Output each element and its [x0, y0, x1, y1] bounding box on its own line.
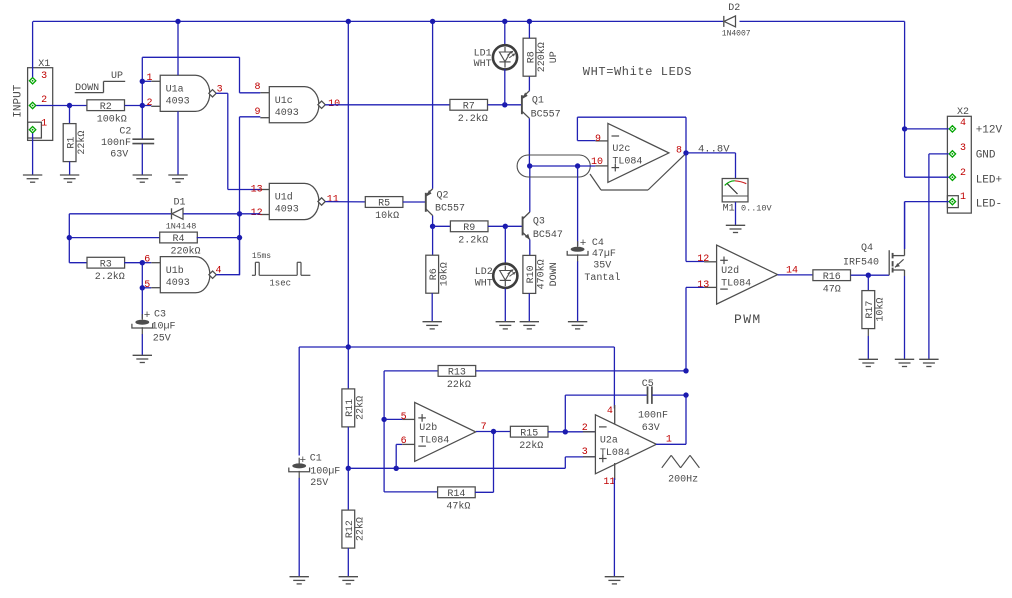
resistor R17 — [862, 291, 887, 329]
junction rail at R8 — [527, 19, 532, 24]
junction rail at U1a — [175, 19, 180, 24]
resistor R8 — [523, 38, 560, 76]
pin number 4 of X2 — [960, 118, 966, 129]
svg-text:R2: R2 — [100, 102, 112, 113]
pin number 1 of U1a — [146, 73, 152, 84]
svg-text:D1: D1 — [173, 198, 185, 209]
svg-text:U2b: U2b — [419, 422, 437, 434]
resistor R3 — [87, 257, 125, 283]
wire mid rail vertical — [347, 21, 349, 347]
wire supply branch y347 — [299, 347, 614, 456]
svg-text:15ms: 15ms — [252, 252, 271, 261]
svg-text:LD1: LD1 — [474, 49, 492, 60]
svg-text:100µF: 100µF — [310, 466, 340, 477]
wire D1 left leg — [69, 214, 171, 263]
wire into U1b pin6 — [142, 262, 151, 264]
capacitor C5 — [648, 386, 652, 404]
pin number 11 of U1d — [327, 194, 339, 205]
wire U1a input tie — [141, 57, 143, 139]
svg-text:4093: 4093 — [166, 97, 190, 108]
wire mid node to U2a pin3 — [348, 457, 595, 468]
annotation DOWN/UP step symbol — [75, 81, 126, 92]
wire branch to R13 — [384, 370, 438, 372]
svg-text:Q2: Q2 — [437, 191, 449, 202]
svg-text:5: 5 — [401, 412, 407, 423]
gate U1a — [151, 75, 216, 111]
wire R6 to ground — [431, 293, 433, 322]
resistor R2 — [87, 100, 127, 126]
svg-text:DOWN: DOWN — [549, 262, 560, 286]
svg-text:X1: X1 — [38, 59, 50, 70]
wire to R4 — [69, 237, 160, 239]
wire U1a power bottom to ground — [177, 111, 179, 175]
svg-text:U1b: U1b — [166, 265, 184, 277]
label X1 — [38, 59, 50, 70]
ground below U2a — [605, 577, 624, 584]
svg-text:4..8V: 4..8V — [698, 144, 730, 156]
wire C5 right to feedback node — [652, 394, 686, 396]
wire R5 to Q2 base — [403, 201, 426, 203]
wire Q3 collector up — [529, 166, 531, 212]
svg-text:22kΩ: 22kΩ — [447, 379, 471, 391]
wire C5 branch — [565, 395, 647, 432]
label Q1 — [532, 96, 544, 107]
capacitor C3 — [132, 314, 153, 335]
wire gray feedback U2c — [590, 153, 686, 190]
label Q2 — [437, 191, 449, 202]
pin number 13 of U1d — [251, 184, 263, 195]
wire into U1a pin1 — [142, 80, 151, 82]
wire R8 to Q1 emitter — [528, 75, 530, 90]
wire U2a pin4 power stub — [614, 405, 616, 424]
svg-text:+12V: +12V — [976, 125, 1003, 137]
resistor R11 — [342, 389, 367, 427]
pin number 2 of U2a — [582, 423, 588, 434]
svg-text:R14: R14 — [447, 489, 465, 500]
plus sign of C4 — [580, 238, 587, 250]
wire X1 pin3 to rail — [32, 21, 34, 77]
svg-text:WHT: WHT — [474, 59, 492, 70]
resistor R1 — [63, 124, 88, 162]
value Tantal of C4 — [584, 272, 620, 284]
resistor R16 — [813, 270, 851, 296]
svg-text:22kΩ: 22kΩ — [76, 131, 88, 155]
svg-text:D2: D2 — [728, 3, 740, 14]
svg-text:63V: 63V — [110, 150, 128, 161]
label LED+ — [976, 175, 1002, 187]
junction C4 top — [575, 163, 580, 168]
svg-text:BC547: BC547 — [533, 230, 563, 241]
ground below C3 — [133, 355, 152, 362]
op-amp U2c — [595, 123, 669, 182]
LED LD1 — [493, 45, 517, 69]
wire Q4 drain up to LED- — [904, 202, 906, 249]
svg-text:0..10V: 0..10V — [741, 203, 773, 213]
ground below R1 — [60, 175, 79, 182]
pin number 10 of U2c — [591, 157, 603, 168]
LED LD2 — [493, 264, 517, 288]
wire Q3 emitter to R10 — [529, 240, 531, 256]
junction R4 right — [237, 235, 242, 240]
wire R11 to mid node — [347, 427, 349, 468]
svg-text:470kΩ: 470kΩ — [536, 259, 548, 289]
svg-text:LD2: LD2 — [475, 267, 493, 278]
svg-text:10kΩ: 10kΩ — [875, 298, 887, 322]
ground below X1 — [23, 175, 42, 182]
svg-text:U2c: U2c — [612, 144, 630, 155]
svg-text:4: 4 — [960, 118, 966, 129]
gate U1b — [151, 257, 216, 293]
label X2 — [957, 107, 969, 118]
transistor Q1 — [522, 91, 530, 119]
wire U2a output up — [656, 395, 686, 444]
value 25V of C1 — [310, 478, 328, 489]
wire rail to X2 pin4 — [905, 128, 949, 130]
svg-text:25V: 25V — [310, 478, 328, 489]
wire U2c output to meter — [686, 153, 736, 179]
junction U1a pin1 — [140, 79, 145, 84]
svg-text:2.2kΩ: 2.2kΩ — [458, 113, 488, 125]
wire into U1c pin8 — [240, 92, 261, 94]
wire X1 pin2 to node A — [36, 105, 69, 107]
svg-text:BC557: BC557 — [435, 204, 465, 215]
svg-text:8: 8 — [676, 146, 682, 157]
svg-text:47µF: 47µF — [592, 249, 616, 260]
svg-text:13: 13 — [251, 184, 263, 195]
wire Q1 collector down — [528, 118, 530, 166]
resistor R5 — [365, 197, 403, 223]
transistor Q4 MOSFET — [889, 249, 904, 276]
pin number 10 of U1c — [328, 99, 340, 110]
svg-text:220kΩ: 220kΩ — [536, 42, 548, 72]
ground below R17 — [859, 359, 878, 366]
svg-text:U2a: U2a — [600, 436, 618, 447]
svg-text:R1: R1 — [66, 137, 77, 149]
junction U2c output — [683, 150, 688, 155]
svg-text:LED+: LED+ — [976, 175, 1002, 187]
wire +12V to LED+ pin2 — [905, 129, 949, 177]
pin number 9 of U2c — [595, 134, 601, 145]
label Q4 — [861, 243, 873, 254]
X2 pin 3 — [949, 151, 955, 157]
svg-text:+: + — [299, 455, 306, 467]
svg-text:100nF: 100nF — [101, 138, 131, 149]
junction U2b output — [491, 429, 496, 434]
ground below LD2 — [496, 322, 515, 329]
op-amp U2d — [704, 245, 778, 304]
wire Q4 source to ground — [904, 276, 906, 359]
capacitor C1 — [289, 458, 310, 479]
wire U2c output down to U2d pin12 — [686, 153, 704, 262]
label C4 — [592, 238, 604, 249]
resistor R6 — [426, 255, 451, 293]
svg-text:U1d: U1d — [275, 192, 293, 204]
pin number 6 of U1b — [144, 254, 150, 265]
label 1sec — [269, 278, 291, 288]
resistor R9 — [450, 221, 488, 247]
svg-text:6: 6 — [401, 436, 407, 447]
resistor R7 — [450, 99, 488, 125]
svg-text:R9: R9 — [463, 223, 475, 234]
svg-text:R8: R8 — [526, 51, 537, 63]
wire R15 to U2a pin2 — [548, 431, 596, 433]
wire R13 R14 branch — [383, 371, 385, 492]
svg-text:3: 3 — [960, 143, 966, 154]
ground below R12 — [339, 577, 358, 584]
wire into U1a pin2 — [142, 105, 151, 107]
op-amp U2b — [402, 402, 476, 461]
svg-text:UP: UP — [549, 51, 560, 63]
wire R2 to U1a input node — [125, 105, 143, 107]
svg-text:R16: R16 — [823, 272, 841, 283]
svg-text:25V: 25V — [153, 333, 171, 344]
pin number 12 of U1d — [251, 208, 263, 219]
label GND — [976, 150, 996, 162]
junction node A — [67, 103, 72, 108]
value 63V of C2 — [110, 150, 128, 161]
svg-text:6: 6 — [144, 254, 150, 265]
wire LD2 node to Q3 base — [505, 225, 522, 227]
annotation stadium around +input node — [517, 155, 590, 177]
svg-text:INPUT: INPUT — [12, 84, 24, 117]
wire LD1 bottom — [504, 69, 506, 105]
label LED- — [976, 199, 1002, 211]
X1 pin 3 — [29, 78, 35, 84]
wire D1 to U1d pin12 — [183, 213, 239, 215]
wire R16 to Q4 gate — [851, 274, 890, 276]
svg-text:U1c: U1c — [275, 96, 293, 107]
svg-text:TL084: TL084 — [419, 436, 449, 447]
wire U1a output — [216, 93, 260, 189]
junction Q2 collector node — [430, 224, 435, 229]
value 0..10V of M1 — [741, 203, 773, 213]
pin number 3 of X1 — [41, 71, 47, 82]
value 35V of C4 — [593, 261, 611, 272]
pin number 1 of X2 — [960, 192, 966, 203]
label PWM — [734, 312, 762, 327]
annotation 15ms/1sec pulse waveform — [252, 262, 311, 275]
wire R17 lead — [867, 329, 869, 336]
value 100nF of C5 — [638, 410, 668, 421]
wire U2a pin11 ground stub — [614, 463, 616, 480]
ground below C1 — [290, 577, 309, 584]
wire U1d output pin11 to R5 — [325, 201, 365, 203]
svg-text:Q4: Q4 — [861, 243, 873, 254]
svg-text:22kΩ: 22kΩ — [355, 396, 367, 420]
annotation triangle waveform 200Hz — [662, 455, 700, 468]
ground below C4 — [568, 322, 587, 329]
svg-text:13: 13 — [697, 280, 709, 291]
svg-text:2: 2 — [146, 98, 152, 109]
svg-text:C3: C3 — [154, 310, 166, 321]
wire R4 to pin12 node — [197, 237, 240, 239]
svg-text:R5: R5 — [378, 199, 390, 210]
svg-text:47Ω: 47Ω — [823, 284, 841, 295]
junction rail at LD1 — [502, 19, 507, 24]
wire X1 pin1 to ground — [32, 133, 34, 175]
value IRF540 of Q4 — [843, 258, 879, 269]
pin number 4 of U2a — [607, 406, 613, 417]
pin number 2 of X1 — [41, 95, 47, 106]
pin number 11 of U2a — [603, 477, 615, 488]
svg-text:100kΩ: 100kΩ — [97, 113, 127, 125]
label D2 — [728, 3, 740, 14]
value 100uF of C1 — [310, 466, 340, 477]
ground below M1 — [726, 225, 745, 232]
svg-text:100nF: 100nF — [638, 410, 668, 421]
wire LD1 top — [504, 21, 506, 45]
svg-text:C4: C4 — [592, 238, 604, 249]
wire feedback box U2c — [577, 117, 686, 153]
svg-text:R13: R13 — [448, 368, 466, 379]
ground below R6 — [423, 322, 442, 329]
wire X2 pin1 LED- to Q4 drain — [905, 202, 949, 249]
svg-text:M1: M1 — [723, 203, 735, 214]
gate U1c — [260, 87, 325, 123]
svg-text:10kΩ: 10kΩ — [375, 210, 399, 222]
label 200Hz — [668, 475, 698, 486]
wire R10 to ground — [528, 293, 530, 321]
pin number 2 of U1a — [146, 98, 152, 109]
wire U1c output pin10 to R7 — [325, 104, 450, 106]
svg-text:4093: 4093 — [275, 205, 299, 216]
svg-text:2: 2 — [582, 423, 588, 434]
wire R3 to U1b pin6 node — [124, 262, 142, 264]
wire U2d pin13 from oscillator — [686, 287, 704, 371]
wire U1b output pin4 — [216, 238, 239, 275]
wire rail to R8 — [528, 21, 530, 38]
label C5 — [642, 379, 654, 390]
junction U2b pin6 node — [394, 466, 399, 471]
wire Q2 collector down — [432, 216, 434, 227]
connector X1 body — [28, 68, 53, 141]
pin number 6 of U2b — [401, 436, 407, 447]
pin number 8 of U1c — [254, 82, 260, 93]
pin number 1 of U2a — [666, 435, 672, 446]
wire into U1d pin12 — [240, 213, 261, 215]
svg-text:22kΩ: 22kΩ — [355, 517, 367, 541]
label +12V — [976, 125, 1003, 137]
resistor R10 — [523, 255, 560, 293]
wire R17 to ground — [867, 336, 869, 359]
resistor R14 — [438, 487, 476, 513]
wire C2 to ground — [141, 144, 143, 175]
wire U1b pin6 tie — [141, 263, 143, 288]
label Q3 — [533, 217, 545, 228]
pin number 1 of X1 — [41, 118, 47, 129]
label C3 — [154, 310, 166, 321]
svg-text:R6: R6 — [429, 268, 440, 280]
wire to R3 — [69, 262, 87, 264]
wire C1 to ground — [298, 478, 300, 577]
junction rail mid — [346, 19, 351, 24]
svg-text:10µF: 10µF — [152, 322, 176, 333]
svg-text:TL084: TL084 — [600, 448, 630, 459]
value 10uF of C3 — [152, 322, 176, 333]
wire rail to R11 — [347, 347, 349, 389]
label C1 — [310, 453, 322, 464]
junction LD2 node — [503, 224, 508, 229]
svg-text:12: 12 — [697, 254, 709, 265]
svg-text:+: + — [580, 238, 587, 250]
svg-text:220kΩ: 220kΩ — [170, 246, 200, 258]
junction pin10 node left — [527, 163, 532, 168]
diode D2 — [724, 16, 736, 27]
svg-text:GND: GND — [976, 150, 996, 162]
svg-text:R3: R3 — [100, 259, 112, 270]
ground below X2 GND — [919, 359, 938, 366]
label UP — [111, 71, 123, 82]
label 15ms — [252, 252, 271, 261]
wire R12 to ground — [347, 548, 349, 577]
wire M1 to ground — [735, 202, 737, 225]
X2 pin 4 — [949, 126, 955, 132]
value BC557 of Q2 — [435, 204, 465, 215]
label WHT of LD2 — [475, 278, 493, 289]
label M1 — [723, 203, 735, 214]
wire node to U2c pin10 — [530, 165, 596, 167]
wire Q2 node to R9 — [433, 225, 451, 227]
wire into U2b pin5 — [384, 418, 402, 420]
wire U2d output to R16 — [778, 274, 813, 276]
svg-text:DOWN: DOWN — [75, 83, 99, 94]
X2 pin 2 — [949, 174, 955, 180]
svg-text:1: 1 — [146, 73, 152, 84]
wire R14 to U2b output — [475, 432, 494, 493]
ground below U1a — [168, 175, 187, 182]
svg-text:11: 11 — [327, 194, 339, 205]
svg-text:8: 8 — [254, 82, 260, 93]
wire U2a pin11 to ground — [613, 478, 615, 577]
junction R13 right — [683, 368, 688, 373]
svg-text:200Hz: 200Hz — [668, 475, 698, 486]
wire pin6 branch — [396, 444, 402, 468]
junction rail at Q2 — [430, 19, 435, 24]
junction LD1 bottom node — [502, 102, 507, 107]
junction +12V at X2 pin4 — [902, 126, 907, 131]
svg-text:R17: R17 — [865, 301, 876, 319]
svg-text:3: 3 — [582, 447, 588, 458]
svg-text:WHT: WHT — [475, 278, 493, 289]
pin number 12 of U2d — [697, 254, 709, 265]
svg-text:10: 10 — [591, 157, 603, 168]
pin number 8 of U2c — [676, 146, 682, 157]
svg-text:1: 1 — [960, 192, 966, 203]
value 1N4007 — [722, 30, 751, 39]
svg-text:1sec: 1sec — [269, 278, 291, 288]
svg-text:TL084: TL084 — [612, 157, 642, 168]
transistor Q2 — [426, 189, 433, 216]
svg-text:10kΩ: 10kΩ — [439, 262, 451, 286]
svg-text:U2d: U2d — [721, 265, 739, 277]
wire U1d pin12 node to output of U1b — [239, 214, 241, 275]
value 1N4148 of D1 — [166, 222, 197, 232]
resistor R4 — [160, 232, 201, 258]
wire node A to R2 — [70, 105, 88, 107]
svg-text:R15: R15 — [520, 428, 538, 439]
ground below C2 — [133, 175, 152, 182]
svg-text:Q1: Q1 — [532, 96, 544, 107]
svg-text:4: 4 — [607, 406, 613, 417]
svg-text:R4: R4 — [172, 234, 184, 245]
wire mid node to R12 — [347, 468, 349, 510]
svg-text:R11: R11 — [345, 399, 356, 417]
svg-text:IRF540: IRF540 — [843, 258, 879, 269]
ground below Q4 — [895, 359, 914, 366]
label WHT of LD1 — [474, 59, 492, 70]
value BC547 of Q3 — [533, 230, 563, 241]
junction U1b pin5 — [140, 285, 145, 290]
